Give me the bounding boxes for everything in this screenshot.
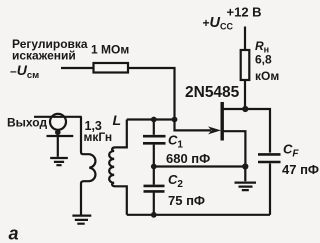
wire bottom rail	[127, 214, 270, 216]
svg-text:C1: C1	[168, 133, 183, 151]
wire supply +12V down	[244, 27, 246, 51]
output connector ground stem	[57, 136, 59, 157]
wire source node rail	[154, 165, 246, 167]
svg-text:2N5485: 2N5485	[185, 84, 240, 101]
svg-text:L: L	[113, 112, 122, 128]
output connector circle	[50, 114, 66, 130]
transistor gate arrowhead	[208, 126, 221, 134]
svg-text:47 пФ: 47 пФ	[282, 162, 319, 177]
svg-text:CF: CF	[283, 142, 299, 160]
capacitor C2 top lead	[153, 167, 155, 185]
svg-text:+12 В: +12 В	[227, 5, 262, 20]
junction node C2-rail	[151, 212, 157, 218]
svg-text:680 пФ: 680 пФ	[166, 151, 210, 166]
ground at output connector	[50, 158, 68, 165]
ground at source	[235, 167, 257, 191]
transistor Q1 2N5485 channel bar	[220, 102, 223, 141]
wire gate rail	[127, 118, 175, 120]
ground at output coil	[72, 216, 91, 224]
svg-text:75 пФ: 75 пФ	[168, 193, 205, 208]
svg-text:C2: C2	[168, 172, 183, 190]
junction node connector bottom	[55, 130, 61, 136]
wire CF bottom	[269, 163, 271, 214]
inductor Lout 1.3uH winding	[81, 117, 95, 215]
svg-text:–Uсм: –Uсм	[10, 62, 39, 81]
svg-text:6,8: 6,8	[255, 53, 272, 67]
resistor RH body	[241, 50, 250, 80]
capacitor C2 bottom lead	[153, 193, 155, 215]
wire bias right segment to gate node	[128, 68, 175, 120]
wire CF branch top	[245, 109, 270, 153]
capacitor C2 plates	[144, 186, 165, 192]
resistor R1 1 MOhm body	[94, 63, 129, 73]
svg-text:искажений: искажений	[12, 49, 76, 63]
wire output horizontal	[34, 116, 82, 118]
capacitor C1 plates	[143, 136, 166, 143]
capacitor C1 bottom lead	[153, 145, 155, 167]
svg-text:а: а	[9, 224, 19, 243]
junction node drain	[242, 106, 248, 112]
wire bias left segment	[61, 67, 94, 69]
svg-text:мкГн: мкГн	[84, 130, 113, 144]
svg-text:1 МОм: 1 МОм	[91, 43, 129, 57]
svg-text:кОм: кОм	[255, 69, 279, 83]
capacitor C1 top lead	[153, 120, 155, 135]
wire gate step to transistor	[175, 120, 212, 131]
junction node source-ground	[242, 163, 248, 169]
wire RH to drain node	[244, 80, 246, 109]
inductor L winding	[109, 120, 127, 215]
svg-text:Выход: Выход	[7, 116, 47, 130]
junction node gate-bias	[172, 117, 178, 123]
junction node source-C1	[151, 164, 157, 170]
wire source	[222, 131, 245, 166]
output connector chassis bar	[47, 135, 74, 137]
wire drain	[222, 108, 245, 110]
capacitor CF plates	[258, 154, 281, 162]
junction node gate-C1	[151, 117, 157, 123]
